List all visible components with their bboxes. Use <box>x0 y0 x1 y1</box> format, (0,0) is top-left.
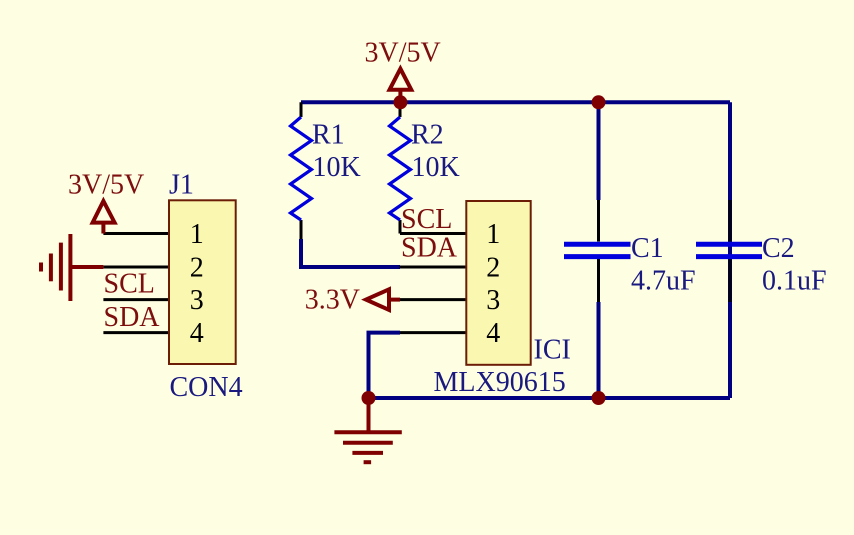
svg-text:10K: 10K <box>412 152 460 183</box>
svg-text:SCL: SCL <box>104 269 155 300</box>
svg-text:C2: C2 <box>762 233 795 264</box>
wire R1 bottom to IC pin 2 (SDA net) <box>301 239 400 267</box>
power port 3.3V at IC pin 3 <box>305 285 400 316</box>
junction dot top at C1 <box>592 95 606 109</box>
connector J1 pins <box>103 234 169 333</box>
svg-text:ICI: ICI <box>534 335 571 366</box>
svg-text:2: 2 <box>486 253 500 284</box>
junction dot top at R2 <box>393 95 407 109</box>
wire C1 branch vertical <box>597 102 601 398</box>
svg-text:3: 3 <box>486 285 500 316</box>
svg-text:3V/5V: 3V/5V <box>365 38 441 69</box>
svg-text:J1: J1 <box>169 170 194 201</box>
capacitor C2 <box>696 200 827 302</box>
svg-text:SDA: SDA <box>104 302 161 333</box>
power port 3V/5V (at J1 pin 1) <box>68 170 144 234</box>
svg-text:SCL: SCL <box>401 204 452 235</box>
svg-text:1: 1 <box>486 219 500 250</box>
svg-text:C1: C1 <box>631 233 664 264</box>
IC U1 MLX90615 pins <box>397 234 466 333</box>
connector J1 body CON4 <box>169 170 243 404</box>
resistor R1 <box>291 102 361 239</box>
svg-text:3V/5V: 3V/5V <box>68 170 144 201</box>
svg-text:0.1uF: 0.1uF <box>762 266 827 297</box>
svg-text:MLX90615: MLX90615 <box>434 367 566 398</box>
earth ground symbol at J1 pin 2 <box>41 234 103 301</box>
wire bottom ground rail <box>369 396 731 400</box>
wire IC pin 4 to ground <box>369 333 401 398</box>
svg-text:2: 2 <box>190 253 204 284</box>
svg-text:4.7uF: 4.7uF <box>631 266 696 297</box>
junction dot bottom at C1 <box>592 391 606 405</box>
capacitor C1 <box>564 200 696 302</box>
svg-text:10K: 10K <box>313 152 361 183</box>
svg-text:CON4: CON4 <box>170 372 243 403</box>
svg-text:SDA: SDA <box>401 233 458 264</box>
svg-text:3: 3 <box>190 285 204 316</box>
svg-text:R2: R2 <box>411 120 444 151</box>
wire right vertical (C2 branch) <box>728 102 732 398</box>
IC U1 MLX90615 body <box>434 201 571 398</box>
svg-text:4: 4 <box>486 318 500 349</box>
junction dot bottom at ground <box>362 391 376 405</box>
svg-text:3.3V: 3.3V <box>305 285 360 316</box>
svg-text:4: 4 <box>190 318 204 349</box>
resistor R2 <box>390 102 460 233</box>
power port 3V/5V (top) <box>365 38 441 101</box>
wire top rail 3V/5V <box>301 100 730 104</box>
svg-text:1: 1 <box>190 219 204 250</box>
ground symbol bottom <box>334 398 401 462</box>
svg-text:R1: R1 <box>312 120 345 151</box>
